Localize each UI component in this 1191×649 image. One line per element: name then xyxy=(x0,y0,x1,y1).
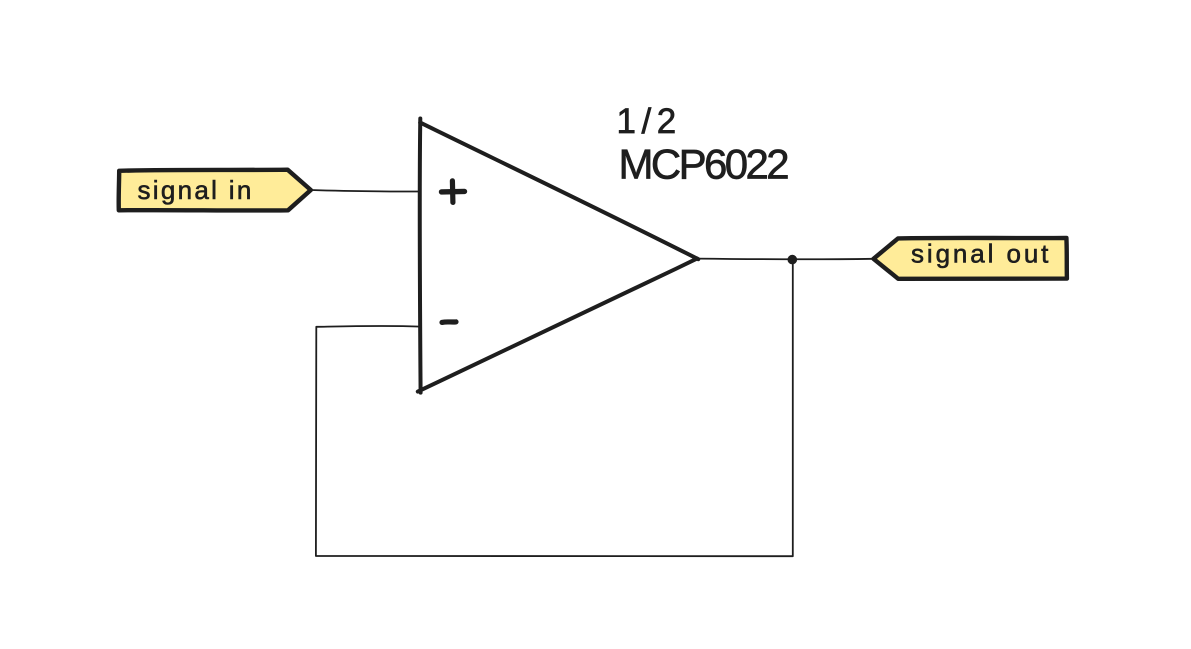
svg-text:MCP6022: MCP6022 xyxy=(619,141,789,188)
svg-text:signal in: signal in xyxy=(138,175,254,205)
left edge xyxy=(418,119,423,393)
junction node dot xyxy=(788,255,798,265)
wire from signal in to op-amp + input xyxy=(311,190,421,192)
bottom edge xyxy=(418,259,697,392)
label 1/2 MCP6022 xyxy=(617,102,789,188)
top edge xyxy=(420,123,698,260)
op-amp U1 triangle xyxy=(418,119,699,393)
node label "signal out" flag xyxy=(874,238,1067,279)
feedback wire from output node down and around to - input xyxy=(316,263,793,556)
op-amp - input symbol xyxy=(442,319,456,325)
svg-text:1/2: 1/2 xyxy=(617,102,682,141)
svg-text:signal out: signal out xyxy=(911,239,1051,269)
node label "signal in" flag xyxy=(119,170,311,211)
output wire from op-amp to signal out xyxy=(697,258,873,261)
op-amp + input symbol xyxy=(442,181,465,203)
